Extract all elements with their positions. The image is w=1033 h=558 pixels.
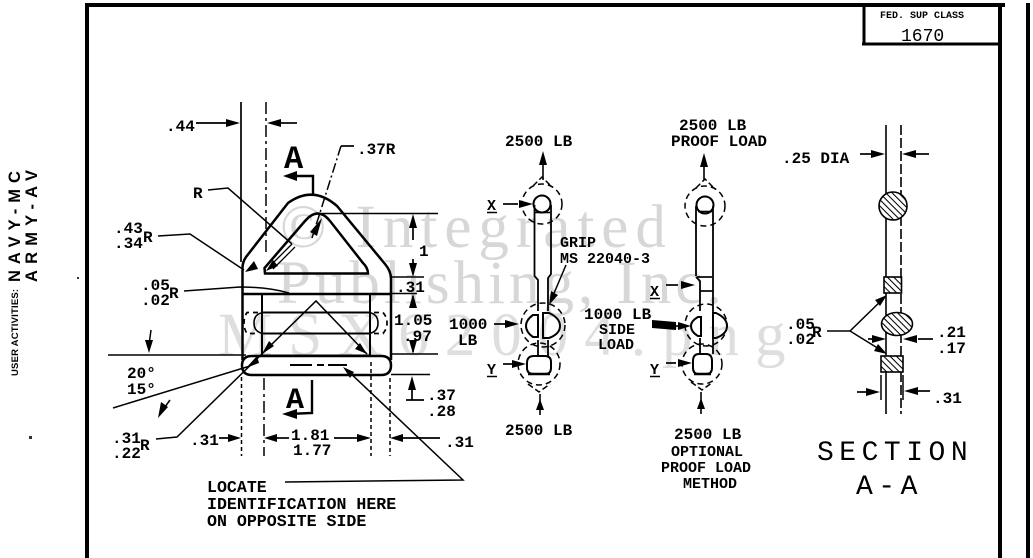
svg-text:.97: .97 — [403, 328, 432, 346]
svg-text:PROOF LOAD: PROOF LOAD — [661, 460, 751, 477]
window bottom edge lower — [262, 355, 370, 357]
svg-text:.37R: .37R — [357, 141, 396, 159]
svg-text:.25 DIA: .25 DIA — [782, 150, 850, 168]
svg-text:ON OPPOSITE SIDE: ON OPPOSITE SIDE — [207, 512, 366, 531]
hatched rect 2 — [881, 356, 903, 372]
svg-text:.02: .02 — [786, 331, 815, 349]
body — [696, 206, 713, 352]
hatched circle top — [879, 192, 907, 220]
R band arrow shaft — [270, 244, 295, 269]
svg-text:SECTION: SECTION — [817, 438, 973, 469]
svg-text:.17: .17 — [937, 340, 966, 358]
bottom bar dash-dot mark — [290, 364, 347, 366]
svg-text:R: R — [169, 285, 179, 303]
middle D shapes — [691, 317, 701, 336]
dashed circle top — [522, 184, 562, 224]
svg-text:ARMY-AV: ARMY-AV — [23, 164, 41, 282]
fed sup class box — [862, 5, 1001, 45]
frame left border — [85, 3, 89, 558]
svg-text:METHOD: METHOD — [683, 476, 737, 493]
svg-text:R: R — [140, 437, 150, 455]
left margin user activities text — [10, 289, 21, 376]
svg-text:A-A: A-A — [856, 472, 923, 503]
svg-text:R: R — [143, 229, 153, 247]
svg-text:OPTIONAL: OPTIONAL — [671, 444, 743, 461]
load arrow — [703, 157, 705, 180]
center line vertical — [265, 102, 267, 256]
middle D shapes — [526, 315, 538, 337]
bottom dashed circle — [682, 344, 722, 384]
top circle solid — [697, 197, 714, 214]
extension line left vertical — [240, 102, 242, 262]
locate leader — [285, 369, 463, 482]
section body lines — [885, 125, 887, 414]
bottom dashed circle — [518, 343, 560, 385]
dim .31 bottom — [880, 375, 882, 400]
middle slot solid — [263, 313, 369, 334]
svg-text:R: R — [812, 324, 822, 342]
svg-text:.34: .34 — [114, 235, 143, 253]
svg-text:NAVY-MC: NAVY-MC — [6, 165, 24, 282]
svg-text:.22: .22 — [112, 445, 141, 463]
svg-text:.44: .44 — [166, 118, 195, 136]
svg-text:MS 22040-3: MS 22040-3 — [560, 251, 650, 268]
body — [535, 205, 552, 311]
middle dashed circle — [521, 303, 565, 347]
svg-text:LB: LB — [458, 332, 478, 350]
frame top border — [85, 3, 1005, 7]
svg-text:.31: .31 — [445, 434, 474, 452]
middle slot dashed hidden ends — [244, 313, 258, 334]
bottom square — [693, 354, 712, 374]
hatched ellipse — [882, 313, 913, 336]
right dim stack — [320, 213, 438, 215]
svg-text:PROOF LOAD: PROOF LOAD — [671, 133, 767, 151]
dim .37 .28 — [408, 376, 416, 390]
dashed circle top — [685, 186, 725, 226]
svg-text:LOAD: LOAD — [598, 337, 634, 354]
lower window inner rect — [262, 294, 370, 355]
inner triangle window — [265, 214, 369, 274]
bottom load arrow — [539, 394, 541, 415]
svg-text:R: R — [193, 185, 203, 203]
body below middle — [700, 338, 713, 354]
frame right inner border — [998, 3, 1002, 558]
svg-text:1: 1 — [419, 243, 429, 261]
svg-text:.28: .28 — [427, 403, 456, 421]
svg-text:2500 LB: 2500 LB — [674, 426, 742, 444]
svg-text:1.77: 1.77 — [293, 442, 331, 460]
svg-text:1670: 1670 — [901, 27, 944, 47]
svg-text:.31: .31 — [190, 432, 219, 450]
svg-text:.31: .31 — [933, 390, 962, 408]
dim 1.05 .97 — [409, 294, 417, 308]
body below middle — [538, 340, 548, 356]
bottom square — [527, 356, 551, 374]
bottom load arrow — [700, 392, 702, 414]
outer body outline — [243, 195, 392, 360]
svg-text:2500 LB: 2500 LB — [505, 422, 573, 440]
svg-text:GRIP: GRIP — [560, 235, 596, 252]
middle dashed circle — [685, 304, 727, 346]
bar bottom line — [242, 293, 390, 296]
dim 1 — [409, 214, 417, 228]
svg-text:.31: .31 — [396, 279, 425, 297]
top circle solid — [534, 196, 551, 213]
frame right outer border — [1026, 3, 1030, 558]
stray speck — [29, 436, 32, 439]
hatched rect 1 — [884, 277, 902, 293]
dim .21 .17 — [868, 338, 873, 340]
svg-text:.02: .02 — [141, 292, 170, 310]
svg-text:2500 LB: 2500 LB — [505, 133, 573, 151]
svg-text:USER ACTIVITIES:: USER ACTIVITIES: — [10, 289, 21, 376]
load arrow top — [542, 155, 544, 180]
bottom stadium bar — [242, 356, 391, 375]
svg-text:FED. SUP CLASS: FED. SUP CLASS — [880, 11, 964, 22]
